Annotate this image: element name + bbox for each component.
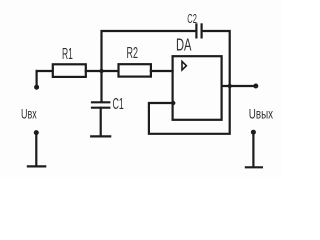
wire R2 to op-amp — [151, 70, 173, 72]
node junction R1/R2/C1 — [99, 69, 103, 73]
resistor R2 — [119, 45, 151, 77]
svg-text:Uвх: Uвх — [21, 106, 37, 121]
wire input row — [37, 70, 53, 72]
ground output terminal — [246, 130, 262, 168]
wire op-amp output — [222, 85, 256, 87]
wire node up to top and C2 left — [102, 31, 196, 102]
ground under C1 — [91, 135, 110, 137]
input terminal dot — [34, 85, 39, 90]
capacitor C2 — [187, 13, 201, 37]
svg-text:Uвых: Uвых — [249, 106, 273, 122]
op-amp DA — [173, 35, 222, 120]
output terminal dot — [253, 84, 258, 89]
wire input stub — [35, 71, 37, 87]
svg-text:R1: R1 — [62, 45, 73, 62]
node junction output — [228, 84, 232, 88]
svg-text:C2: C2 — [187, 13, 197, 26]
node feedback at op-amp input — [171, 101, 175, 105]
wire R1 to R2 — [86, 70, 119, 72]
ground input terminal — [28, 130, 45, 166]
wire feedback loop — [149, 86, 230, 134]
svg-text:R2: R2 — [127, 45, 138, 62]
svg-text:DA: DA — [176, 35, 192, 55]
capacitor C1 — [92, 95, 124, 135]
wire C2 right down to output node — [203, 31, 230, 85]
resistor R1 — [53, 45, 86, 77]
svg-text:C1: C1 — [113, 95, 124, 112]
